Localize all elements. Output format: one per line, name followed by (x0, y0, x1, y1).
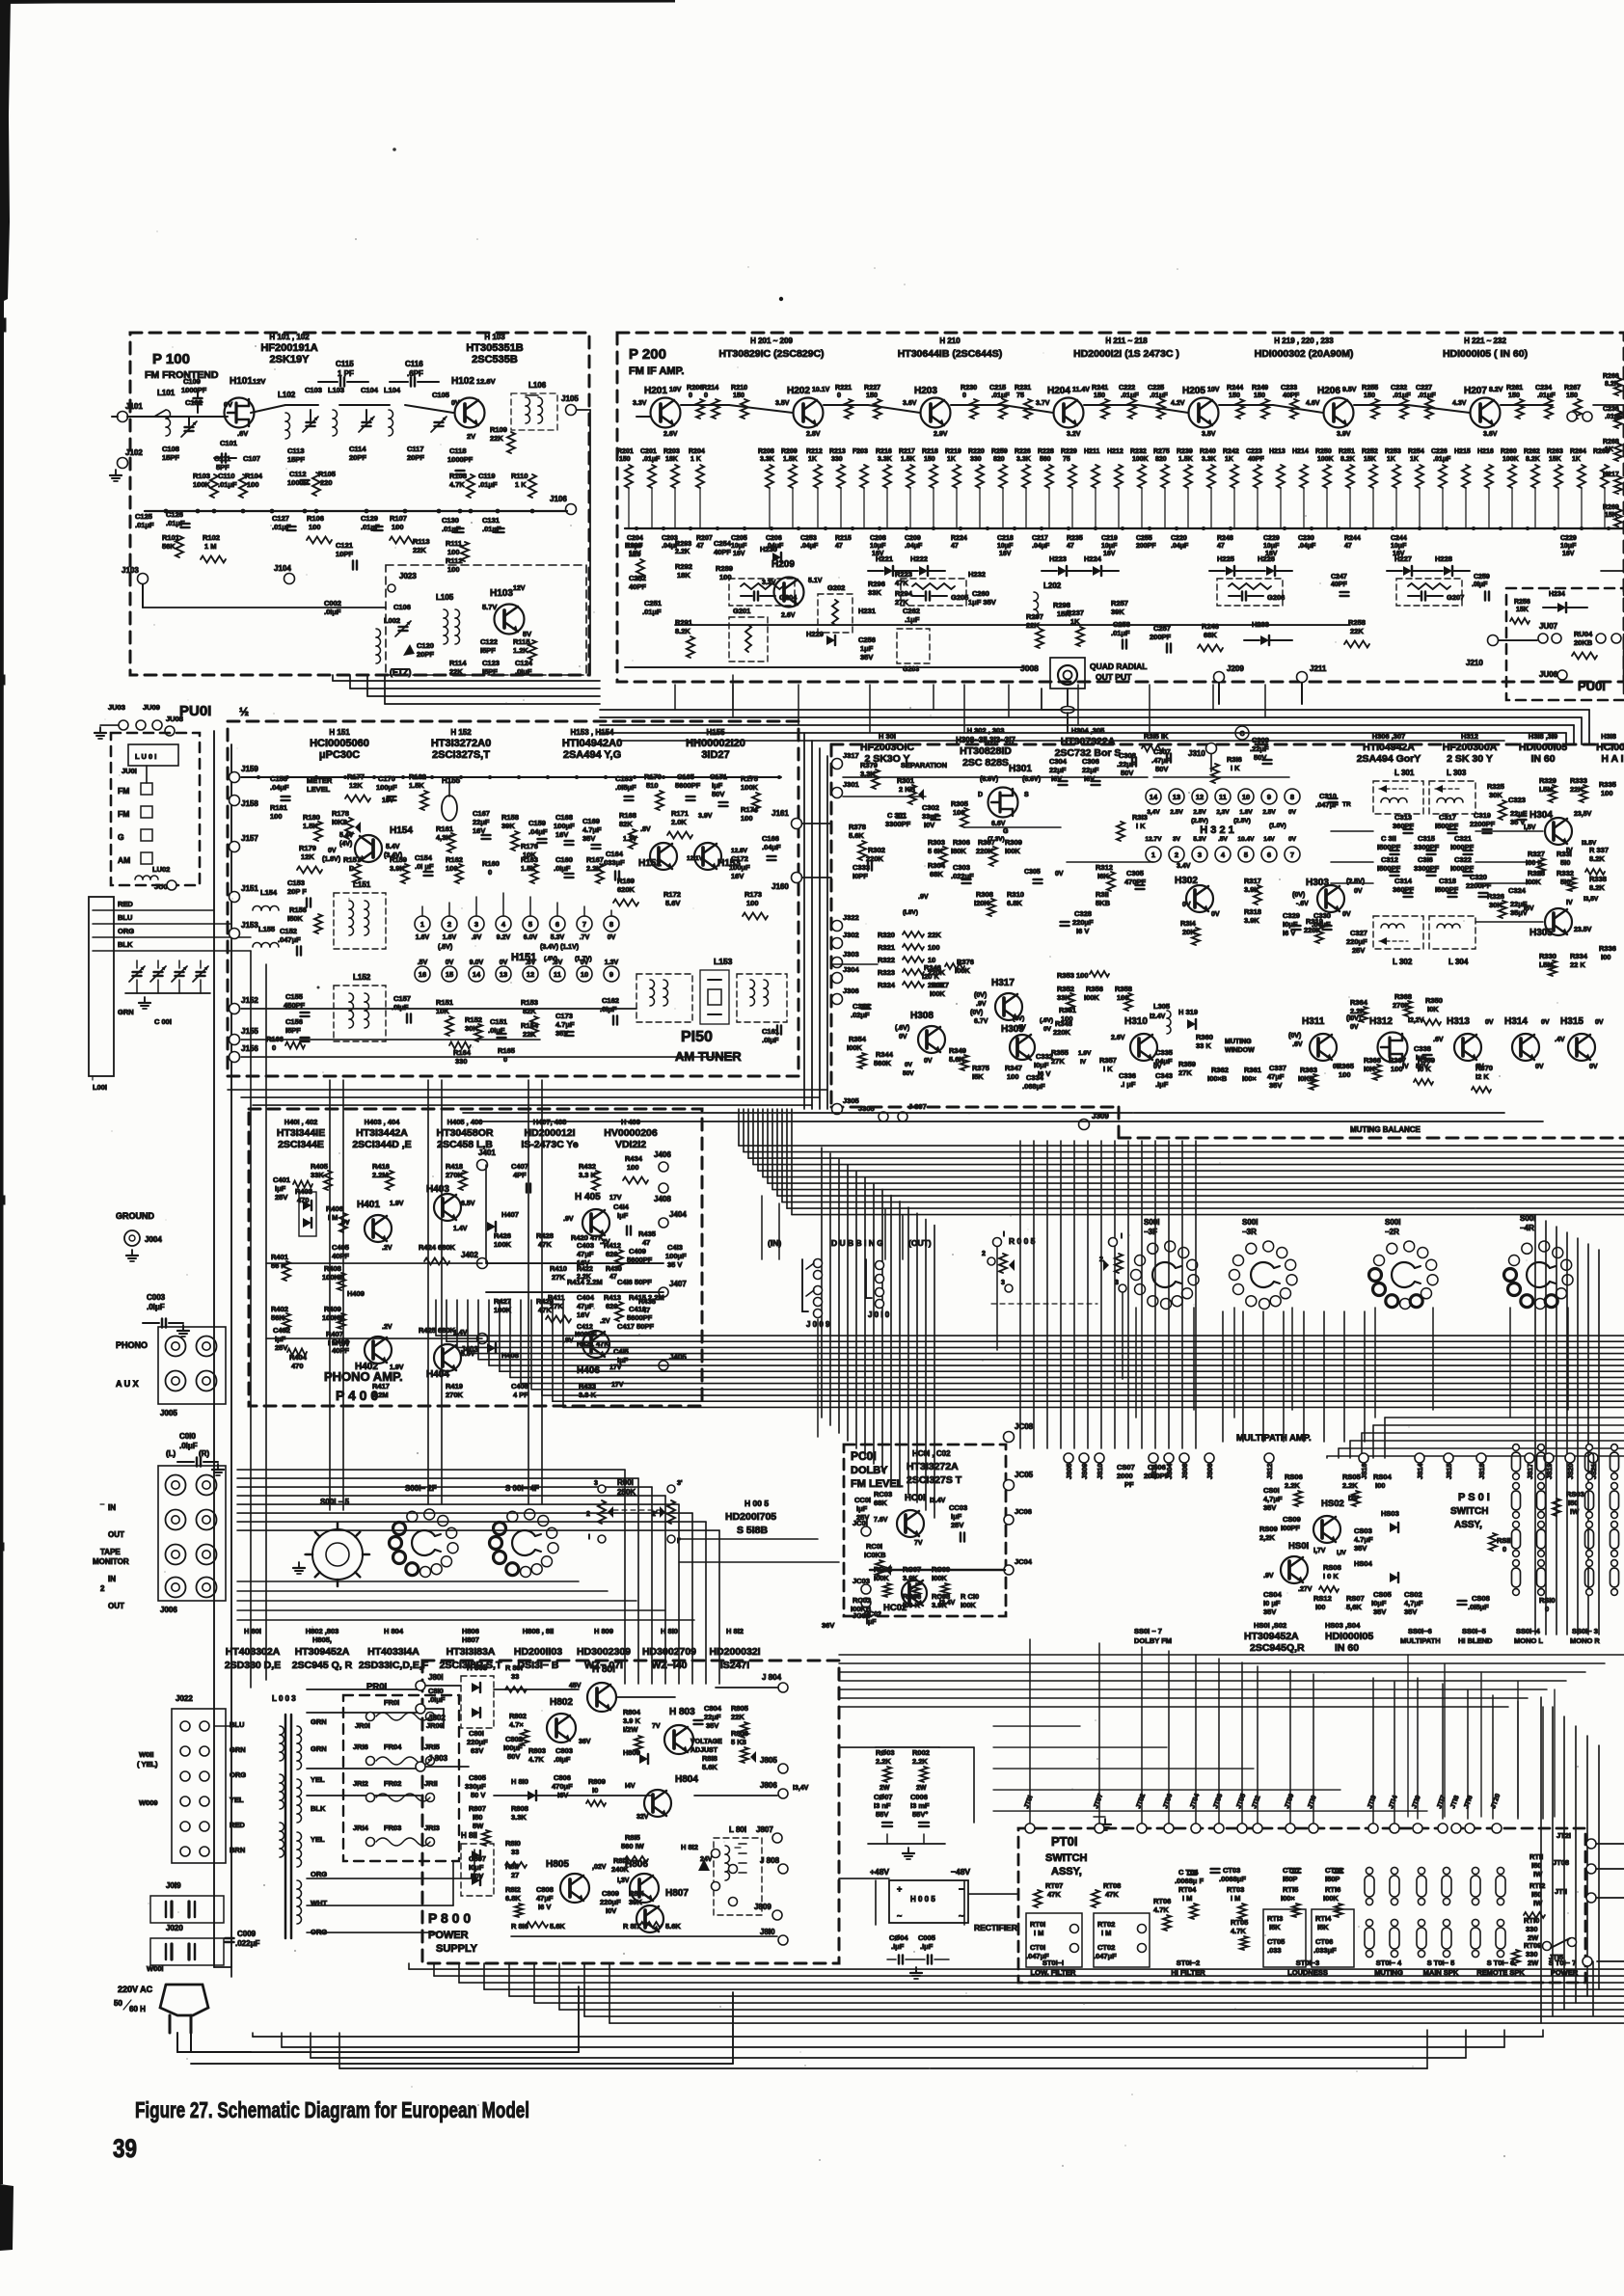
svg-text:25V: 25V (275, 1343, 287, 1352)
svg-text:.01μF: .01μF (1150, 391, 1168, 399)
rectifier H005 box (889, 1880, 968, 1923)
svg-text:R158: R158 (501, 813, 519, 822)
svg-text:I00K: I00K (1526, 878, 1541, 886)
RCA jack tape (166, 1578, 186, 1598)
svg-text:35V: 35V (1354, 1544, 1367, 1553)
svg-text:33K: 33K (868, 588, 881, 597)
svg-text:.6V: .6V (526, 959, 536, 966)
svg-text:R110: R110 (511, 472, 528, 480)
svg-text:10μF: 10μF (1391, 543, 1407, 550)
jacks J209 J211 J210 (1214, 672, 1225, 683)
svg-text:R00I: R00I (617, 1478, 634, 1487)
svg-text:RT04: RT04 (1178, 1885, 1197, 1894)
svg-text:100: 100 (309, 523, 321, 531)
svg-text:47μF: 47μF (577, 1250, 594, 1258)
svg-text:H807: H807 (665, 1888, 689, 1899)
wire bundle D verticals to multipath (1019, 1141, 1021, 1448)
svg-text:R353 100: R353 100 (1057, 971, 1089, 980)
svg-text:47: 47 (1067, 543, 1074, 550)
svg-text:150: 150 (619, 456, 631, 463)
svg-text:.9V: .9V (563, 1216, 574, 1223)
svg-text:3.3K: 3.3K (511, 1813, 527, 1822)
svg-text:C162: C162 (602, 996, 619, 1005)
svg-text:C404: C404 (577, 1293, 595, 1302)
svg-text:4.2V: 4.2V (1171, 400, 1185, 407)
svg-text:.6V: .6V (1016, 1024, 1026, 1031)
switch contact (1365, 1876, 1374, 1897)
svg-text:C412: C412 (577, 1324, 593, 1331)
block PC01 DOLBY border (844, 1445, 1006, 1616)
svg-text:(2.5V): (2.5V) (1346, 878, 1365, 885)
svg-text:R258: R258 (1348, 618, 1366, 627)
svg-text:,02V: ,02V (592, 1864, 607, 1871)
svg-text:J302: J302 (843, 931, 859, 939)
svg-text:.0068μF: .0068μF (1219, 1875, 1246, 1883)
svg-text:330: 330 (1526, 1925, 1538, 1933)
svg-text:RTI5: RTI5 (1283, 1885, 1298, 1894)
switch contact (1471, 1928, 1480, 1949)
svg-text:METER: METER (307, 776, 333, 785)
svg-text:R 8I6: R 8I6 (511, 1922, 528, 1931)
IC pin 9 (604, 966, 619, 982)
svg-text:I4V: I4V (625, 1783, 636, 1790)
switch contact (1417, 1876, 1426, 1897)
svg-text:1 K: 1 K (690, 456, 701, 463)
svg-text:H40I , 402: H40I , 402 (284, 1118, 318, 1126)
svg-text:.01μF: .01μF (1121, 391, 1139, 399)
svg-text:IμF: IμF (866, 1619, 877, 1626)
svg-text:22K: 22K (1350, 627, 1364, 635)
svg-text:L105: L105 (436, 593, 454, 602)
svg-text:H214: H214 (1292, 448, 1309, 455)
svg-text:100: 100 (1007, 1072, 1019, 1081)
svg-text:C: C (1239, 731, 1244, 738)
svg-text:−2R: −2R (1385, 1228, 1399, 1236)
svg-text:4.7μF: 4.7μF (582, 825, 602, 834)
svg-text:2,2K: 2,2K (1259, 1533, 1275, 1542)
svg-text:R237: R237 (1067, 608, 1084, 617)
svg-text:10: 10 (1242, 793, 1250, 801)
svg-text:H 152: H 152 (450, 728, 472, 737)
svg-text:2W: 2W (916, 1785, 927, 1792)
svg-text:C167: C167 (473, 809, 490, 818)
svg-text:C805: C805 (469, 1773, 486, 1782)
svg-text:Figure 27. Schematic Diagram: Figure 27. Schematic Diagram for Europea… (135, 2097, 529, 2122)
svg-text:RC03: RC03 (874, 1490, 892, 1499)
svg-text:0V: 0V (1535, 1064, 1544, 1070)
svg-text:C104: C104 (361, 386, 379, 394)
svg-text:0V: 0V (581, 959, 589, 966)
svg-text:J310: J310 (1188, 749, 1205, 758)
svg-text:47: 47 (951, 543, 959, 550)
svg-text:12.1V: 12.1V (687, 855, 704, 862)
svg-text:I K: I K (1103, 1065, 1113, 1073)
svg-text:C247: C247 (1331, 574, 1347, 581)
svg-text:1 K: 1 K (515, 480, 527, 489)
svg-text:5I0: 5I0 (1560, 858, 1570, 867)
jack J103 (138, 574, 149, 584)
svg-text:10μF: 10μF (731, 543, 747, 550)
svg-text:C251: C251 (644, 599, 662, 608)
svg-text:JS08: JS08 (1182, 1464, 1189, 1479)
svg-text:3.9 K: 3.9 K (623, 1716, 641, 1725)
svg-text:C303: C303 (953, 863, 970, 872)
svg-text:C160: C160 (555, 855, 573, 864)
svg-text:C329: C329 (1283, 911, 1300, 920)
IC pin 1 (415, 916, 430, 932)
svg-text:4.7K: 4.7K (1231, 1927, 1246, 1935)
svg-text:2.0K: 2.0K (671, 818, 687, 826)
svg-text:7V: 7V (914, 1540, 923, 1547)
svg-text:220K: 220K (1053, 1028, 1071, 1037)
svg-text:C105: C105 (432, 391, 449, 399)
svg-text:RTI3: RTI3 (1267, 1914, 1283, 1923)
svg-text:8.2K: 8.2K (1526, 456, 1540, 463)
wires in lower P100 (142, 584, 144, 608)
svg-text:C324: C324 (1508, 886, 1527, 895)
svg-text:H 211 ~ 218: H 211 ~ 218 (1105, 337, 1148, 345)
mid bus wire pc01 (870, 1569, 1005, 1572)
svg-text:C165: C165 (677, 772, 694, 781)
svg-text:HT403302A: HT403302A (226, 1646, 281, 1658)
box RT14 CT06 (1312, 1909, 1354, 1967)
svg-text:0V: 0V (1182, 902, 1191, 908)
svg-text:C402: C402 (273, 1326, 290, 1335)
svg-text:I50: I50 (1531, 1861, 1541, 1870)
wire vertical J105 drop (577, 409, 590, 411)
jack JTI2 (1253, 1823, 1262, 1833)
svg-text:C109: C109 (183, 377, 201, 386)
svg-text:I00 K: I00 K (903, 1601, 921, 1609)
RCA jack tape (197, 1578, 217, 1598)
svg-text:JS16: JS16 (1362, 1464, 1368, 1479)
IC wire rails (421, 906, 423, 916)
jacks J807-J810 (772, 1833, 782, 1843)
svg-text:C229: C229 (1560, 535, 1577, 542)
wire J161 J160 into MPX (802, 823, 831, 824)
block P150 AM TUNER border (228, 721, 798, 1076)
IC H321 pin 3 (1192, 847, 1207, 862)
svg-text:SS0I−5: SS0I−5 (1462, 1627, 1486, 1635)
svg-text:1K: 1K (1070, 617, 1080, 626)
svg-text:16V: 16V (473, 826, 485, 835)
svg-text:R173: R173 (744, 890, 762, 899)
svg-text:R176: R176 (521, 842, 538, 851)
svg-text:1.5K: 1.5K (409, 781, 424, 790)
svg-text:R321: R321 (878, 943, 895, 952)
jack JS10 (1095, 1453, 1104, 1463)
svg-text:L 80I: L 80I (729, 1825, 746, 1834)
svg-text:IμF: IμF (275, 1184, 286, 1193)
svg-text:J402: J402 (461, 1251, 478, 1259)
svg-text:J209: J209 (1227, 664, 1244, 673)
svg-text:D: D (978, 792, 983, 798)
svg-text:H802: H802 (550, 1697, 573, 1708)
svg-text:5.4V: 5.4V (386, 844, 400, 851)
svg-text:I80K: I80K (951, 847, 966, 855)
svg-text:R324: R324 (878, 981, 896, 989)
svg-text:I00: I00 (1601, 953, 1610, 961)
svg-text:I6 V: I6 V (538, 1903, 551, 1911)
svg-text:G201: G201 (733, 607, 750, 615)
svg-text:0V: 0V (905, 1062, 913, 1068)
wire plug to J022 (214, 1725, 231, 1727)
svg-text:C313: C313 (1394, 813, 1412, 822)
jack JTI3 (1368, 1823, 1378, 1833)
wire bus under P200 to MPX (600, 709, 1589, 711)
svg-text:.9V: .9V (976, 1001, 987, 1008)
node C circled (1235, 726, 1249, 740)
svg-text:I3.5V: I3.5V (1582, 840, 1597, 847)
svg-text:R291: R291 (675, 618, 692, 627)
svg-text:HT30458OR: HT30458OR (437, 1127, 494, 1139)
svg-text:R 0 0 5: R 0 0 5 (1009, 1236, 1036, 1246)
svg-text:C130: C130 (442, 516, 459, 525)
svg-text:CT0I: CT0I (1030, 1943, 1045, 1952)
svg-text:2.2K: 2.2K (1285, 1481, 1300, 1490)
svg-text:HD200II03: HD200II03 (514, 1646, 562, 1658)
svg-text:R CI0: R CI0 (961, 1592, 979, 1601)
svg-text:R405: R405 (311, 1162, 328, 1171)
svg-text:R207: R207 (696, 535, 713, 542)
svg-text:8.2K: 8.2K (675, 627, 690, 635)
svg-text:.6V: .6V (553, 959, 563, 966)
svg-text:PI50: PI50 (681, 1029, 713, 1045)
jack JC02 (861, 1598, 871, 1607)
svg-text:L103: L103 (328, 386, 344, 394)
svg-text:5KB: 5KB (1096, 899, 1111, 907)
svg-text:R114: R114 (449, 659, 467, 667)
svg-text:CØ07: CØ07 (874, 1793, 893, 1801)
svg-text:J303: J303 (843, 950, 859, 959)
transistor H152 (650, 843, 677, 870)
svg-text:J 803: J 803 (428, 1754, 448, 1763)
svg-text:4.7μF: 4.7μF (555, 1020, 575, 1029)
jack JS12 (1264, 1453, 1274, 1463)
svg-text:5.6K: 5.6K (550, 1922, 565, 1931)
svg-text:100μF: 100μF (729, 863, 750, 872)
paper specks (570, 525, 572, 527)
svg-text:120: 120 (629, 550, 641, 558)
svg-text:5: 5 (1244, 851, 1248, 859)
svg-text:0: 0 (488, 868, 492, 877)
svg-text:RC06: RC06 (903, 1592, 921, 1601)
svg-text:HDI000I05: HDI000I05 (1519, 742, 1567, 753)
RCA jack tape (166, 1475, 186, 1496)
svg-text:R33I: R33I (1556, 850, 1572, 858)
svg-text:R240: R240 (1200, 448, 1216, 455)
IC H321 pin 12 (1192, 789, 1207, 804)
svg-text:0V: 0V (328, 848, 337, 854)
RCA jack (197, 1371, 217, 1391)
svg-text:R347: R347 (1005, 1064, 1022, 1072)
svg-text:R216: R216 (876, 448, 892, 455)
svg-text:SWITCH: SWITCH (1045, 1852, 1087, 1864)
svg-text:H 80I: H 80I (592, 1664, 615, 1675)
svg-text:C305: C305 (1126, 869, 1144, 878)
svg-text:15K: 15K (1364, 456, 1376, 463)
svg-text:0V: 0V (1541, 1019, 1550, 1026)
svg-text:.01μF: .01μF (1433, 456, 1451, 463)
svg-text:L 303: L 303 (1447, 769, 1467, 777)
svg-text:47K: 47K (538, 1240, 552, 1249)
svg-text:3.9K: 3.9K (932, 1601, 947, 1609)
svg-text:I00K: I00K (932, 1574, 947, 1582)
svg-text:C117: C117 (407, 445, 424, 453)
svg-text:R409: R409 (324, 1305, 341, 1313)
svg-text:R333: R333 (1570, 776, 1587, 785)
svg-text:12: 12 (1196, 793, 1204, 801)
svg-text:JC08: JC08 (1015, 1422, 1034, 1431)
svg-text:J 804: J 804 (762, 1673, 782, 1682)
svg-text:R226: R226 (1015, 448, 1031, 455)
stage wiring bus top (636, 416, 650, 418)
svg-text:.5V: .5V (418, 959, 428, 966)
svg-text:RTI6: RTI6 (1325, 1885, 1340, 1894)
svg-text:3.3V: 3.3V (762, 580, 776, 586)
svg-text:2SD330 D,E: 2SD330 D,E (225, 1660, 281, 1671)
svg-text:J304: J304 (843, 965, 860, 974)
svg-text:270K: 270K (446, 1391, 464, 1399)
svg-text:22μF: 22μF (1082, 766, 1099, 774)
svg-text:15K: 15K (1549, 456, 1561, 463)
svg-text:35V: 35V (582, 834, 595, 843)
svg-text:HH00002I20: HH00002I20 (686, 738, 745, 749)
svg-text:H 80I: H 80I (244, 1627, 261, 1635)
svg-text:(0V): (0V) (970, 1010, 983, 1016)
svg-text:2.5V: 2.5V (1262, 809, 1276, 816)
svg-text:L00I: L00I (93, 1083, 107, 1092)
jack JC01 (861, 1526, 871, 1536)
svg-text:CS0I: CS0I (1263, 1486, 1280, 1495)
svg-text:GRN: GRN (311, 1717, 327, 1726)
svg-text:C809: C809 (602, 1889, 619, 1898)
jacks right J406 J408 J404 J407 J405 (659, 1162, 668, 1172)
svg-text:R378: R378 (849, 823, 866, 831)
coil L302 dashed (1373, 916, 1423, 949)
svg-text:L 301: L 301 (1394, 769, 1415, 777)
svg-text:RT05: RT05 (1231, 1918, 1248, 1927)
svg-text:H403 , 404: H403 , 404 (365, 1118, 401, 1126)
svg-text:L 304: L 304 (1448, 958, 1469, 966)
svg-text:JS10: JS10 (1097, 1464, 1104, 1479)
svg-text:1.3V: 1.3V (623, 836, 637, 843)
svg-text:SS0I − 7: SS0I − 7 (1134, 1627, 1162, 1635)
svg-text:H206: H206 (1317, 386, 1340, 396)
wire bus2 (339, 404, 390, 406)
svg-text:SWITCH: SWITCH (1450, 1506, 1488, 1517)
svg-text:HT309452A: HT309452A (295, 1646, 350, 1658)
svg-text:H 405: H 405 (575, 1192, 601, 1202)
svg-text:J102: J102 (125, 448, 143, 457)
svg-text:L 0 0 3: L 0 0 3 (272, 1694, 296, 1703)
svg-text:60 H: 60 H (129, 2005, 146, 2013)
svg-text:47: 47 (642, 1306, 650, 1314)
svg-text:30K: 30K (1489, 791, 1502, 799)
jack JT04 (1191, 1823, 1201, 1833)
svg-text:I5K: I5K (972, 1072, 984, 1081)
svg-text:J106: J106 (550, 495, 567, 503)
svg-text:C151: C151 (490, 1017, 507, 1026)
FTZ sub block (386, 565, 586, 675)
jack J106 (566, 504, 577, 515)
wire bundle E right verticals (1534, 1215, 1536, 1634)
svg-text:14: 14 (1150, 793, 1158, 801)
svg-text:47: 47 (642, 1238, 650, 1247)
wire horizontals mid right 1790-1880 (993, 1725, 1080, 1727)
svg-text:RED: RED (118, 900, 133, 908)
svg-text:R262: R262 (1524, 448, 1540, 455)
svg-text:W0II: W0II (139, 1750, 153, 1759)
svg-text:R180: R180 (303, 813, 320, 822)
svg-text:JRI3: JRI3 (424, 1823, 440, 1832)
svg-text:5W: 5W (473, 1822, 484, 1830)
svg-text:L305: L305 (1153, 1002, 1170, 1011)
svg-text:27: 27 (511, 1871, 519, 1879)
svg-text:C252: C252 (629, 574, 646, 582)
svg-text:HS0I ,S02: HS0I ,S02 (1254, 1621, 1286, 1630)
svg-text:R217: R217 (899, 448, 915, 455)
svg-text:.01μF: .01μF (478, 480, 498, 489)
svg-text:12K: 12K (301, 852, 314, 861)
right edge wires (1593, 404, 1624, 406)
svg-text:R429: R429 (536, 1297, 554, 1306)
jack J804 (778, 1683, 788, 1692)
svg-text:32V: 32V (636, 1814, 649, 1821)
svg-text:27K: 27K (1051, 1057, 1065, 1066)
svg-text:150: 150 (1508, 391, 1520, 399)
svg-text:H212: H212 (1107, 448, 1123, 455)
svg-text:9.5V: 9.5V (1342, 387, 1357, 393)
svg-text:J161: J161 (771, 809, 789, 818)
svg-text:100: 100 (1391, 1065, 1403, 1073)
svg-text:C315: C315 (1418, 834, 1435, 843)
module G205 (901, 579, 966, 606)
svg-text:CS04: CS04 (1263, 1590, 1283, 1599)
svg-text:C321: C321 (1454, 834, 1472, 843)
svg-text:JS15: JS15 (1447, 1464, 1453, 1479)
svg-text:HT3I344IE: HT3I344IE (277, 1127, 325, 1139)
svg-text:HDI000I05 ( IN 60): HDI000I05 ( IN 60) (1443, 348, 1528, 360)
svg-text:100: 100 (447, 565, 460, 574)
svg-text:2: 2 (1099, 1256, 1103, 1263)
svg-text:.033: .033 (1267, 1946, 1282, 1955)
svg-text:H304: H304 (1529, 810, 1553, 821)
svg-text:J805: J805 (760, 1756, 777, 1765)
jack JC08 (1004, 1432, 1015, 1443)
svg-text:.0IμF: .0IμF (324, 608, 341, 616)
svg-text:3.3K: 3.3K (1016, 456, 1031, 463)
svg-text:J317: J317 (843, 751, 859, 760)
svg-text:I00KB: I00KB (851, 1605, 872, 1613)
svg-text:C259: C259 (1474, 574, 1490, 581)
svg-text:R248: R248 (1217, 535, 1233, 542)
svg-text:I 0 K: I 0 K (1323, 1572, 1339, 1580)
svg-text:H806: H806 (462, 1627, 479, 1635)
svg-text:C206: C206 (766, 535, 782, 542)
svg-text:C110: C110 (218, 472, 235, 480)
svg-text:C80I: C80I (469, 1729, 484, 1738)
svg-text:22K: 22K (490, 434, 503, 443)
svg-text:C405: C405 (332, 1243, 349, 1252)
svg-text:R308: R308 (976, 890, 993, 899)
contact pair J022 row 3 (180, 1771, 190, 1781)
svg-text:RS05: RS05 (1342, 1472, 1361, 1481)
svg-text:5.6V: 5.6V (665, 899, 680, 907)
svg-text:R8I2: R8I2 (505, 1885, 521, 1894)
svg-text:50V: 50V (1121, 769, 1133, 777)
svg-text:25V: 25V (951, 1521, 963, 1529)
